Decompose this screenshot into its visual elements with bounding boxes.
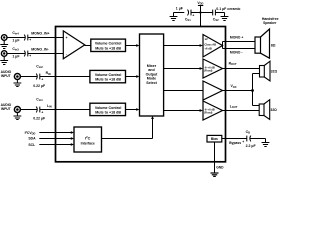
I2C interface block — [74, 127, 102, 152]
svg-text:+: + — [41, 111, 43, 115]
svg-text:Cin1: Cin1 — [36, 98, 43, 103]
wire J1 to C_in4 — [7, 37, 26, 39]
wire volume control 3 to mixer — [126, 108, 140, 111]
wire volume control 1 to mixer — [126, 44, 140, 47]
input terminal J2 (MONO_IN-) — [1, 51, 7, 57]
svg-text:0.22 µF: 0.22 µF — [33, 84, 46, 88]
svg-text:+: + — [41, 78, 43, 82]
op-amp U1 mono differential input amp — [63, 31, 85, 59]
svg-text:0.1 µF ceramic: 0.1 µF ceramic — [216, 7, 240, 11]
wire VDD into IC — [200, 13, 202, 27]
svg-text:Select: Select — [146, 81, 157, 85]
svg-text:INPUT: INPUT — [1, 74, 11, 78]
svg-text:INPUT: INPUT — [1, 107, 11, 111]
svg-text:MONO_IN+: MONO_IN+ — [31, 31, 49, 35]
node supply junction — [199, 11, 201, 13]
wire J3 to C_in2 — [20, 76, 37, 78]
wire LOUT — [223, 110, 260, 112]
svg-text:GND: GND — [216, 166, 224, 170]
op-amp U5 left headphone amp — [203, 101, 223, 120]
op-amp U4 VOC buffer amp — [203, 81, 223, 100]
capacitor CB — [242, 130, 256, 148]
op-amp U2 mono Class AB speaker amp — [203, 35, 223, 58]
volume control 1 — [91, 39, 126, 51]
svg-text:+: + — [29, 54, 31, 58]
svg-text:Mute to +18 dB: Mute to +18 dB — [95, 78, 121, 82]
svg-text:32Ω: 32Ω — [271, 69, 278, 73]
svg-text:LIN: LIN — [47, 104, 52, 109]
volume control 2 — [90, 70, 126, 82]
svg-text:CB: CB — [246, 130, 251, 135]
handsfree speaker LS1 — [255, 17, 279, 58]
capacitor Cin4 — [12, 31, 31, 43]
svg-text:Cin3: Cin3 — [12, 47, 19, 52]
input terminal J1 (MONO_IN+) — [1, 35, 7, 41]
svg-text:LOUT: LOUT — [230, 104, 238, 109]
wire mixer to mono amp — [164, 44, 203, 47]
svg-text:SCL: SCL — [28, 143, 35, 147]
svg-text:1 µF: 1 µF — [12, 38, 20, 42]
wire mixer to VOC buffer amp — [164, 90, 203, 92]
ground (CS1) — [170, 13, 178, 21]
svg-text:Mute to +18 dB: Mute to +18 dB — [95, 111, 121, 115]
svg-text:MONO -: MONO - — [230, 50, 243, 54]
wire ROUT — [223, 68, 260, 70]
capacitor CS2 — [213, 7, 241, 22]
svg-text:x2: x2 — [205, 37, 208, 41]
wire bias to bypass pin — [222, 138, 247, 140]
wire CS1 to ground — [174, 12, 185, 14]
capacitor Cin1 — [33, 98, 46, 121]
wire supply rail — [191, 12, 213, 14]
svg-text:SDA: SDA — [28, 137, 36, 141]
wire U1 output to volume control 1 — [85, 45, 91, 47]
bias block — [207, 135, 222, 142]
svg-text:Volume Control: Volume Control — [95, 73, 122, 77]
wire J4 to C_in1 — [20, 109, 37, 111]
svg-text:MONO_IN-: MONO_IN- — [31, 47, 49, 51]
svg-text:(Fixed): (Fixed) — [204, 111, 212, 114]
node VOC junction — [251, 89, 254, 92]
wire SDA to I2C interface — [39, 137, 74, 140]
op-amp U3 right headphone amp — [203, 59, 223, 78]
wire MONO- output — [223, 48, 256, 50]
svg-text:CS1: CS1 — [185, 18, 191, 23]
svg-text:Bypass: Bypass — [229, 141, 241, 145]
capacitor Cin3 — [12, 47, 31, 59]
headphone speaker LS3 (left) — [259, 100, 277, 120]
headphone speaker LS2 (right) — [260, 61, 278, 81]
svg-text:(Fixed): (Fixed) — [204, 69, 212, 72]
wire bias to GND pin — [214, 142, 216, 173]
svg-text:Bias: Bias — [211, 137, 218, 141]
svg-text:Interface: Interface — [81, 141, 95, 145]
volume control 3 — [90, 103, 126, 115]
svg-text:Volume Control: Volume Control — [95, 42, 122, 46]
svg-text:2.2 µF: 2.2 µF — [246, 144, 257, 148]
svg-text:I2C: I2C — [85, 135, 91, 140]
svg-text:Volume Control: Volume Control — [95, 106, 122, 110]
svg-text:+6 dB: +6 dB — [204, 46, 211, 50]
input terminal J3 (right audio input) — [1, 70, 21, 79]
ground (CB) — [262, 139, 270, 147]
wire C_in2 to volume control 2 — [40, 76, 90, 78]
mixer and output mode select block — [140, 34, 164, 116]
svg-text:CS2: CS2 — [213, 18, 219, 23]
capacitor CS1 — [176, 6, 195, 22]
wire mixer to right amp — [164, 67, 203, 70]
wire VOC common to headphone returns — [253, 74, 260, 106]
svg-text:Cin4: Cin4 — [12, 31, 19, 36]
wire C_in3 to pin MONO_IN- — [28, 53, 64, 55]
svg-text:32Ω: 32Ω — [271, 108, 278, 112]
ground (under J4) — [14, 112, 22, 119]
svg-text:Cin2: Cin2 — [36, 64, 43, 69]
supply node VDD — [197, 1, 203, 13]
input terminal J4 (left audio input) — [1, 103, 21, 112]
capacitor Cin2 — [33, 64, 46, 88]
wire volume control 2 to mixer — [126, 75, 140, 78]
svg-text:1 µF: 1 µF — [176, 6, 184, 10]
svg-text:Mute to +18 dB: Mute to +18 dB — [95, 46, 121, 50]
svg-text:0.22 µF: 0.22 µF — [33, 117, 46, 121]
wire SCL to I2C interface — [39, 143, 74, 146]
wire I2C interface to mixer — [102, 116, 154, 139]
svg-text:+: + — [192, 14, 194, 18]
svg-text:MONO +: MONO + — [230, 35, 243, 39]
svg-text:ROUT: ROUT — [229, 62, 237, 67]
ground (under J1) — [0, 40, 8, 48]
ground (GND pin) — [211, 173, 219, 176]
svg-text:+: + — [242, 140, 244, 144]
wire I2CVDD to I2C interface — [39, 131, 74, 134]
svg-text:RIN: RIN — [46, 71, 51, 76]
wire CS2 to ground — [215, 12, 224, 14]
ground (under J2) — [0, 56, 8, 64]
wire VOC — [223, 90, 253, 92]
svg-text:8Ω: 8Ω — [271, 44, 276, 48]
wire C_in1 to volume control 3 — [40, 109, 90, 111]
svg-text:Speaker: Speaker — [263, 21, 277, 25]
ground (CS2) — [221, 13, 229, 21]
svg-text:VOC: VOC — [231, 84, 237, 89]
wire J2 to C_in3 — [7, 53, 26, 55]
svg-text:Class AB: Class AB — [204, 43, 216, 47]
ground (under J3) — [14, 79, 22, 86]
wire mixer to left amp — [164, 109, 203, 112]
svg-text:+: + — [29, 38, 31, 42]
wire MONO+ output — [223, 42, 256, 49]
svg-text:+: + — [66, 36, 68, 40]
svg-text:VDD: VDD — [197, 1, 203, 6]
wire C_in4 to pin MONO_IN+ — [28, 37, 64, 39]
wire CB to ground — [250, 138, 266, 140]
IC boundary box — [56, 27, 226, 162]
svg-text:1 µF: 1 µF — [12, 55, 20, 59]
